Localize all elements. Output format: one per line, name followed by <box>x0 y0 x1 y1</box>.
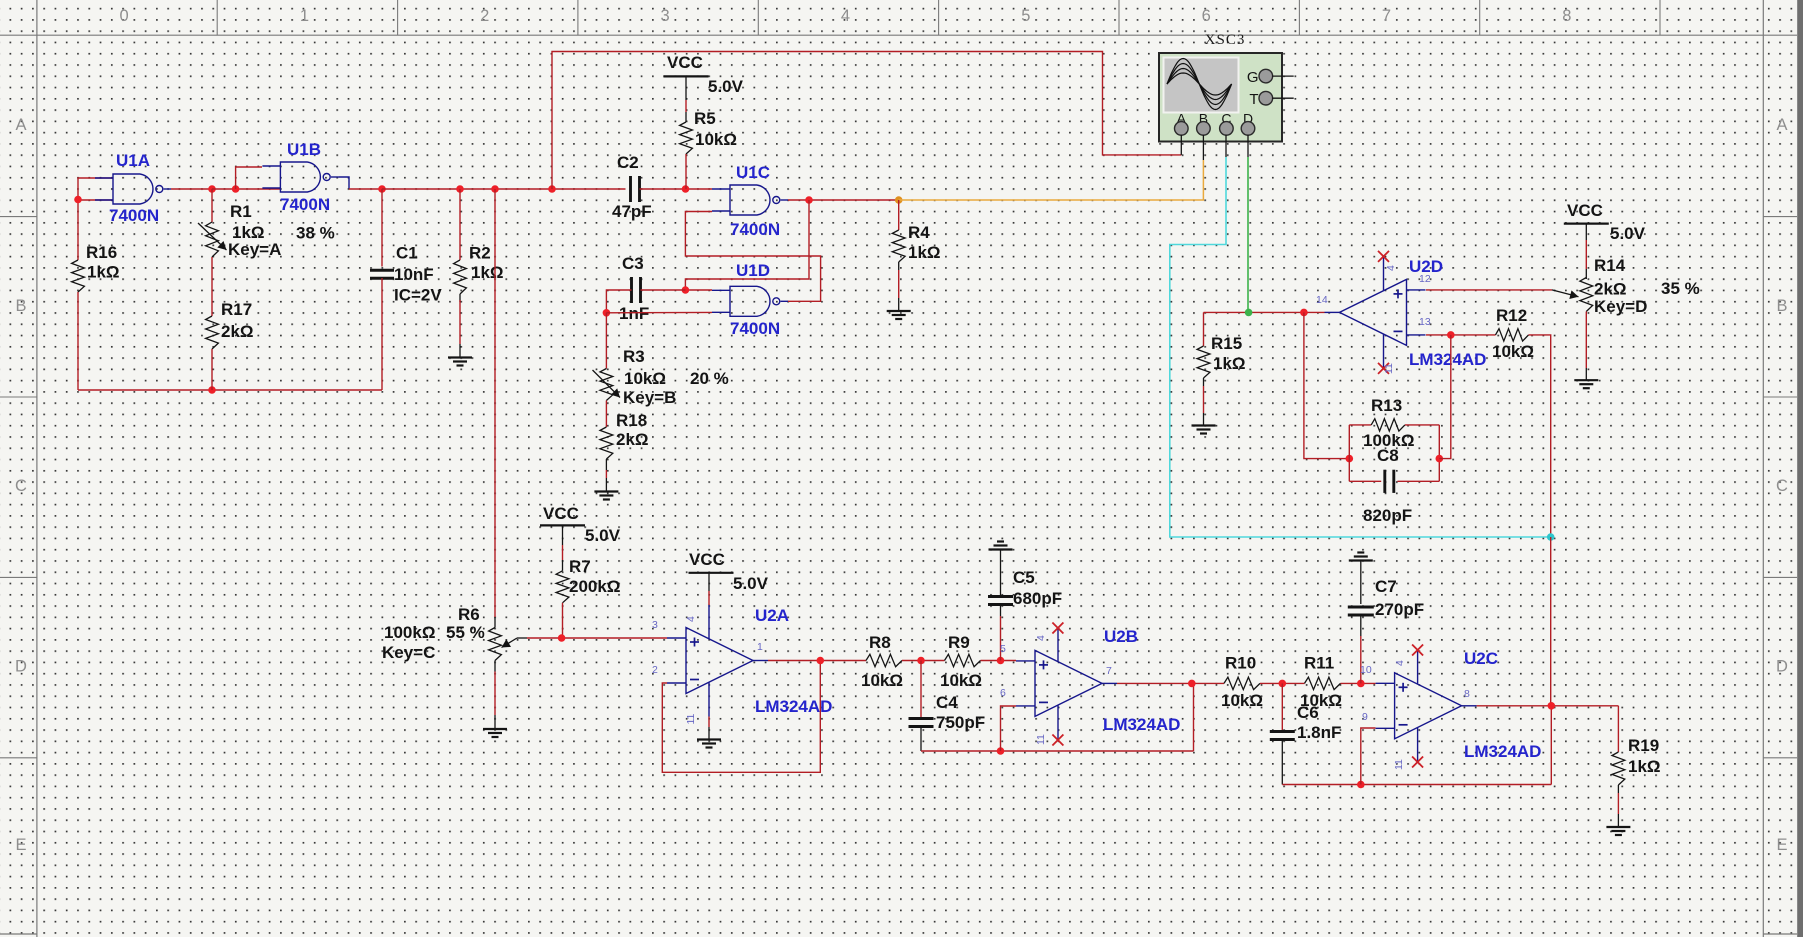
wire R7 to wiper node <box>562 603 564 638</box>
wire main node to U1B feedback <box>212 188 280 190</box>
svg-text:11: 11 <box>685 713 697 724</box>
svg-text:VCC: VCC <box>689 550 725 569</box>
svg-text:C4: C4 <box>936 693 958 712</box>
wire VCC to R7 <box>562 525 564 570</box>
wire ground to C5 <box>1000 550 1002 596</box>
svg-text:U1C: U1C <box>736 163 770 182</box>
nand gate U1A <box>95 151 171 225</box>
wire C4 down <box>920 661 922 718</box>
wire R13C8 left frame <box>1349 425 1439 481</box>
capacitor C6 <box>1270 703 1342 742</box>
pin U2B 7 <box>1106 665 1112 677</box>
node U1A inputs junction <box>74 196 82 204</box>
svg-text:9: 9 <box>1362 711 1368 723</box>
wire R11 to U2C + <box>1341 682 1376 684</box>
svg-text:2kΩ: 2kΩ <box>616 430 649 449</box>
wire C6 to rail <box>1281 741 1283 785</box>
svg-text:8: 8 <box>1464 688 1470 700</box>
wire R1 to R17 <box>211 257 213 316</box>
capacitor C4 <box>909 693 986 732</box>
pin U2C 4 <box>1394 660 1406 666</box>
svg-text:VCC: VCC <box>1567 201 1603 220</box>
pin U2A 11 <box>685 713 697 724</box>
svg-text:A: A <box>1776 116 1787 134</box>
wire R8 to R9 <box>902 660 945 662</box>
svg-text:R7: R7 <box>569 557 591 576</box>
wire C3 left loop <box>606 290 631 313</box>
pot wiper arrow R14 <box>1552 290 1579 299</box>
wire net to scope C (cyan) <box>1170 157 1551 537</box>
node R5 bottom <box>682 185 690 193</box>
svg-text:LM324AD: LM324AD <box>1103 715 1180 734</box>
svg-text:11: 11 <box>1393 759 1405 770</box>
svg-text:20 %: 20 % <box>690 369 729 388</box>
svg-text:10kΩ: 10kΩ <box>861 671 903 690</box>
svg-text:4: 4 <box>685 616 697 622</box>
op-amp U2A <box>667 605 832 717</box>
resistor R12 <box>1492 306 1534 361</box>
svg-text:C: C <box>15 477 27 495</box>
svg-text:4: 4 <box>1394 660 1406 666</box>
potentiometer R1 <box>198 202 335 259</box>
wire U2B feedback right <box>1193 683 1195 751</box>
svg-text:B: B <box>15 297 26 315</box>
wire U1A output <box>171 188 212 190</box>
svg-text:1: 1 <box>757 641 763 653</box>
wire C7 to node <box>1360 616 1362 683</box>
node cyan junction <box>1547 533 1555 541</box>
resistor R4 <box>892 223 940 262</box>
svg-text:D: D <box>1776 658 1788 676</box>
node R13 right top <box>1447 331 1455 339</box>
pin U2A 3 <box>652 619 658 631</box>
node R1 top <box>208 185 216 193</box>
ground R6 <box>483 729 507 737</box>
svg-text:C5: C5 <box>1013 568 1035 587</box>
nand gate U1D <box>712 261 788 338</box>
node U2A output <box>817 657 825 665</box>
pot wiper arrow R6 <box>502 638 518 648</box>
svg-text:R18: R18 <box>616 411 647 430</box>
wire R5 to node <box>685 154 687 189</box>
svg-text:R1: R1 <box>230 202 252 221</box>
node C6 top <box>1279 680 1287 688</box>
wire U2D output net <box>1204 311 1325 313</box>
svg-text:VCC: VCC <box>543 504 579 523</box>
nand gate U1C <box>712 163 788 239</box>
svg-text:47pF: 47pF <box>612 202 652 221</box>
potentiometer R3 <box>593 347 729 407</box>
node U2C output <box>1548 702 1556 710</box>
capacitor C8 <box>1363 446 1412 525</box>
svg-text:750pF: 750pF <box>936 713 985 732</box>
pin U2D 14 <box>1316 294 1328 306</box>
svg-text:0: 0 <box>119 7 128 25</box>
capacitor C2 <box>612 153 652 221</box>
wire R10 to R11 <box>1260 682 1305 684</box>
wire C1 to rail <box>381 278 383 390</box>
svg-text:3: 3 <box>661 7 670 25</box>
node scope-A tap <box>548 185 556 193</box>
resistor R9 <box>940 633 982 690</box>
svg-text:5.0V: 5.0V <box>708 77 744 96</box>
svg-text:R3: R3 <box>623 347 645 366</box>
wire U2C - branch <box>1361 728 1376 785</box>
wire R16 to bottom rail <box>77 292 79 390</box>
svg-text:U1B: U1B <box>287 140 321 159</box>
svg-text:R16: R16 <box>86 243 117 262</box>
wire U2D - input to R12 <box>1426 334 1496 336</box>
wire R15 down <box>1203 312 1205 346</box>
node R4 top <box>895 196 903 204</box>
svg-text:IC=2V: IC=2V <box>394 286 442 305</box>
svg-text:2: 2 <box>652 664 658 676</box>
svg-text:U1A: U1A <box>116 151 150 170</box>
wire VCC to R14 <box>1585 224 1587 279</box>
wire R12 node to U2C output <box>1550 537 1552 706</box>
node C1 tap <box>378 185 386 193</box>
svg-text:200kΩ: 200kΩ <box>569 577 620 596</box>
svg-text:5: 5 <box>1021 7 1030 25</box>
svg-text:4: 4 <box>1385 265 1397 271</box>
ground R2 <box>448 358 472 366</box>
svg-text:U2C: U2C <box>1464 649 1498 668</box>
resistor R13 <box>1363 396 1414 450</box>
node R13C8 right <box>1436 455 1444 463</box>
resistor R16 <box>72 243 120 292</box>
resistor R17 <box>206 300 254 349</box>
resistor R8 <box>861 633 903 690</box>
pin U2A 2 <box>652 664 658 676</box>
svg-text:4: 4 <box>841 7 850 25</box>
svg-text:10kΩ: 10kΩ <box>695 130 737 149</box>
node R6 wire tap <box>491 185 499 193</box>
xmark U2C pin4 <box>1412 645 1423 656</box>
svg-text:3: 3 <box>652 619 658 631</box>
svg-text:4: 4 <box>1035 635 1047 641</box>
svg-text:10kΩ: 10kΩ <box>940 671 982 690</box>
wire C1 down <box>381 189 383 267</box>
resistor R10 <box>1221 654 1263 711</box>
svg-text:7: 7 <box>1382 7 1391 25</box>
svg-text:2: 2 <box>480 7 489 25</box>
svg-text:E: E <box>15 836 26 854</box>
svg-text:R17: R17 <box>221 300 252 319</box>
ground R15 <box>1192 426 1216 434</box>
svg-text:C7: C7 <box>1375 577 1397 596</box>
wire R15 to ground <box>1203 378 1205 425</box>
pin U2C 11 <box>1393 759 1405 770</box>
wire bottom rail <box>78 389 382 391</box>
node scope D tap <box>1245 309 1253 317</box>
node C5 bottom <box>997 657 1005 665</box>
ground R4 <box>887 311 911 319</box>
svg-text:5.0V: 5.0V <box>1610 224 1646 243</box>
svg-text:11: 11 <box>1383 363 1395 374</box>
svg-text:2kΩ: 2kΩ <box>1594 280 1627 299</box>
ground R19 <box>1606 827 1630 835</box>
op-amp U2B <box>1016 627 1180 739</box>
svg-text:7400N: 7400N <box>280 195 330 214</box>
svg-text:7400N: 7400N <box>730 220 780 239</box>
capacitor C3 <box>619 254 649 323</box>
wire main U1B to C2 <box>382 188 626 190</box>
wire R2 down <box>459 189 461 260</box>
svg-text:Key=D: Key=D <box>1594 297 1647 316</box>
svg-text:C3: C3 <box>622 254 644 273</box>
svg-text:13: 13 <box>1419 316 1431 328</box>
pin U2C 9 <box>1362 711 1368 723</box>
svg-text:R9: R9 <box>948 633 970 652</box>
wire long vertical to R6 <box>494 189 496 628</box>
wire C3 right <box>641 289 686 291</box>
wire U1A input loop node to gate <box>78 178 113 260</box>
svg-text:680pF: 680pF <box>1013 589 1062 608</box>
resistor R2 <box>454 244 504 295</box>
pin U2B 4 <box>1035 635 1047 641</box>
wire U1B output to main <box>349 188 382 190</box>
resistor R11 <box>1300 654 1342 711</box>
capacitor C5 <box>988 568 1062 608</box>
svg-text:C2: C2 <box>617 153 639 172</box>
resistor R7 <box>556 557 620 603</box>
wire C6 bottom rail <box>1282 784 1551 786</box>
svg-text:11: 11 <box>1035 734 1047 745</box>
wire U2B - branch <box>1001 706 1017 751</box>
svg-text:7: 7 <box>1106 665 1112 677</box>
node - branch U2B <box>997 747 1005 755</box>
wire net to scope B (orange) <box>899 160 1204 200</box>
wire VCC to R5 <box>685 76 687 122</box>
wire R2 to ground <box>459 294 461 357</box>
pin U2D 12 <box>1419 273 1431 285</box>
wire U1C feedback to U1D input <box>685 200 809 290</box>
svg-text:100kΩ: 100kΩ <box>384 623 435 642</box>
ground C5 (up) <box>989 542 1013 550</box>
svg-text:38 %: 38 % <box>296 224 335 243</box>
node C3/R3/U1D-B <box>603 309 611 317</box>
svg-text:B: B <box>1776 297 1787 315</box>
wire C4 to rail <box>920 728 922 751</box>
svg-text:5.0V: 5.0V <box>733 574 769 593</box>
svg-text:1kΩ: 1kΩ <box>471 263 504 282</box>
resistor R18 <box>600 411 649 459</box>
svg-text:5: 5 <box>1000 643 1006 655</box>
node feedback tap <box>1300 309 1308 317</box>
svg-text:820pF: 820pF <box>1363 506 1412 525</box>
xmark U2B pin4 <box>1052 623 1063 634</box>
pin U2B 5 <box>1000 643 1006 655</box>
oscilloscope XSC3 <box>1159 32 1294 160</box>
vcc symbol R7 <box>540 504 621 545</box>
svg-text:1kΩ: 1kΩ <box>908 243 941 262</box>
svg-text:14: 14 <box>1316 294 1328 306</box>
node U1C output <box>805 196 813 204</box>
wire R13C8 to inverting node <box>1439 335 1451 459</box>
svg-text:LM324AD: LM324AD <box>1409 350 1486 369</box>
svg-text:E: E <box>1776 836 1787 854</box>
wire net to scope D (green) <box>1247 157 1249 312</box>
svg-text:270pF: 270pF <box>1375 600 1424 619</box>
wire R3 top <box>605 313 607 369</box>
svg-text:55 %: 55 % <box>446 623 485 642</box>
resistor R15 <box>1197 334 1245 378</box>
wire ground to C7 <box>1360 561 1362 605</box>
svg-text:C1: C1 <box>396 244 418 263</box>
svg-text:Key=B: Key=B <box>623 388 676 407</box>
svg-text:R12: R12 <box>1496 306 1527 325</box>
pin U2B 11 <box>1035 734 1047 745</box>
svg-text:Key=C: Key=C <box>382 643 435 662</box>
svg-text:10kΩ: 10kΩ <box>624 369 666 388</box>
svg-text:8: 8 <box>1562 7 1571 25</box>
node U1B input A tap <box>232 185 240 193</box>
wire C4 bottom rail <box>921 750 1194 752</box>
wire R17 to rail <box>211 349 213 390</box>
svg-text:7400N: 7400N <box>109 206 159 225</box>
wire R12 right down <box>1529 335 1551 537</box>
node C7 bottom <box>1357 680 1365 688</box>
wire U2A - feedback <box>662 661 820 773</box>
svg-text:6: 6 <box>1000 687 1006 699</box>
svg-text:10kΩ: 10kΩ <box>1221 691 1263 710</box>
ground R14 <box>1574 380 1598 388</box>
xmark U2D pin11 <box>1378 363 1389 374</box>
svg-text:R6: R6 <box>458 605 480 624</box>
svg-text:A: A <box>15 116 26 134</box>
capacitor C1 <box>370 244 442 305</box>
svg-text:1kΩ: 1kΩ <box>1213 354 1246 373</box>
wire U2A pin11 to ground <box>708 717 710 740</box>
svg-text:1nF: 1nF <box>619 304 649 323</box>
wire R4 down <box>898 200 900 230</box>
wire C5 to node <box>1000 606 1002 661</box>
svg-text:R11: R11 <box>1304 654 1334 673</box>
node U2C - branch <box>1357 781 1365 789</box>
svg-text:C6: C6 <box>1297 703 1319 722</box>
potentiometer R6 <box>382 605 501 662</box>
vcc symbol R14 <box>1564 201 1646 243</box>
xmark U2B pin11 <box>1052 735 1063 746</box>
svg-text:1kΩ: 1kΩ <box>87 263 120 282</box>
node R13C8 left <box>1346 455 1354 463</box>
wire VCC to U2A <box>708 573 710 605</box>
nand gate U1B <box>262 140 349 214</box>
svg-text:C: C <box>1776 477 1788 495</box>
svg-text:R4: R4 <box>908 223 930 242</box>
wire R9 to U2B + node <box>981 660 1017 662</box>
pin U2D 13 <box>1419 316 1431 328</box>
svg-text:R10: R10 <box>1225 654 1256 673</box>
xmark U2C pin11 <box>1412 757 1423 768</box>
resistor R19 <box>1612 736 1661 785</box>
pin U2D 4 <box>1385 265 1397 271</box>
wire U1C output <box>788 199 899 201</box>
node R2 tap <box>456 185 464 193</box>
capacitor C7 <box>1348 577 1424 619</box>
wire U2C output <box>1477 705 1619 707</box>
svg-text:6: 6 <box>1202 7 1211 25</box>
svg-text:T: T <box>1249 91 1258 108</box>
wire U1D output crossover <box>685 212 820 302</box>
node U1D input A / C3 <box>682 286 690 294</box>
svg-text:XSC3: XSC3 <box>1205 32 1246 48</box>
pin U2B 6 <box>1000 687 1006 699</box>
svg-text:1kΩ: 1kΩ <box>1628 757 1661 776</box>
wire U1D input B <box>606 311 712 313</box>
resistor R5 <box>680 109 737 154</box>
wire R6 to ground <box>494 661 496 729</box>
svg-text:U2B: U2B <box>1104 627 1138 646</box>
ground C7 (up) <box>1349 553 1373 561</box>
wire U2A output <box>768 660 866 662</box>
svg-text:35 %: 35 % <box>1661 279 1700 298</box>
op-amp U2D <box>1325 256 1487 369</box>
svg-text:1: 1 <box>300 7 309 25</box>
svg-text:R2: R2 <box>469 244 491 263</box>
vcc symbol R5 <box>664 53 744 96</box>
pin U2C 10 <box>1360 664 1372 676</box>
svg-text:5.0V: 5.0V <box>585 526 621 545</box>
svg-text:1.8nF: 1.8nF <box>1297 723 1341 742</box>
op-amp U2C <box>1376 649 1542 762</box>
svg-text:Key=A: Key=A <box>228 240 281 259</box>
svg-text:10nF: 10nF <box>394 265 434 284</box>
pin U2C 8 <box>1464 688 1470 700</box>
wire R19 down <box>1617 706 1619 752</box>
svg-text:R19: R19 <box>1628 736 1659 755</box>
vcc symbol U2A <box>689 550 769 593</box>
svg-text:R14: R14 <box>1594 256 1626 275</box>
node C4 top <box>917 657 925 665</box>
wire net to scope A <box>552 52 1181 190</box>
svg-text:LM324AD: LM324AD <box>1464 742 1541 761</box>
svg-text:U1D: U1D <box>736 261 770 280</box>
svg-text:10: 10 <box>1360 664 1372 676</box>
pin U2D 11 <box>1383 363 1395 374</box>
wire feedback down to R13C8 <box>1304 312 1349 458</box>
ground R18 <box>594 492 618 500</box>
node bottom rail R17 <box>208 386 216 394</box>
xmark U2D pin4 <box>1378 251 1389 262</box>
pin U2A 4 <box>685 616 697 622</box>
node R7 tap <box>558 634 566 642</box>
wire R6 wiper net <box>517 637 667 639</box>
wire C6 down <box>1281 683 1283 730</box>
svg-text:D: D <box>15 658 27 676</box>
wire R1 chain top <box>211 189 213 222</box>
svg-text:C8: C8 <box>1377 446 1399 465</box>
svg-text:VCC: VCC <box>667 53 703 72</box>
svg-text:R13: R13 <box>1371 396 1402 415</box>
node U2B output <box>1188 680 1196 688</box>
svg-text:R8: R8 <box>869 633 891 652</box>
svg-text:G: G <box>1247 69 1259 86</box>
svg-text:7400N: 7400N <box>730 319 780 338</box>
svg-text:12: 12 <box>1419 273 1431 285</box>
wire C2 to R5 node <box>640 188 713 190</box>
svg-text:U2A: U2A <box>755 606 789 625</box>
ground U2A <box>697 740 721 748</box>
wire R3 to R18 <box>605 401 607 428</box>
wire R18 to ground <box>605 459 607 491</box>
svg-text:2kΩ: 2kΩ <box>221 322 254 341</box>
wire R14 to ground <box>1585 312 1587 381</box>
svg-text:R5: R5 <box>694 109 716 128</box>
wire U2D + input to R14 wiper <box>1426 289 1552 291</box>
svg-text:10kΩ: 10kΩ <box>1492 342 1534 361</box>
wire R19 to ground <box>1617 785 1619 827</box>
